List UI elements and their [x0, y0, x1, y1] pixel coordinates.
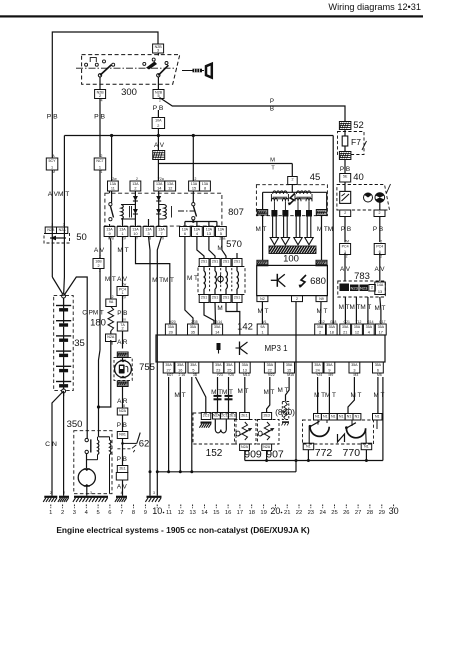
- svg-text:4: 4: [101, 99, 103, 103]
- 570 pin row top: [199, 259, 209, 267]
- svg-text:G18: G18: [330, 320, 337, 324]
- starter motor armature: [78, 469, 95, 486]
- svg-text:N9: N9: [319, 297, 324, 301]
- svg-text:19: 19: [260, 510, 266, 516]
- svg-text:8: 8: [111, 342, 113, 346]
- svg-text:1: 1: [51, 165, 53, 169]
- starter solenoid contact bar: [90, 439, 92, 452]
- relay 1 contact: [111, 191, 113, 203]
- ignition coil T1: [273, 191, 287, 194]
- sensor 909 dashed box: [235, 420, 257, 445]
- svg-text:2C1: 2C1: [221, 414, 228, 418]
- capacitor C2: [225, 395, 233, 397]
- svg-text:7: 7: [160, 232, 162, 236]
- starter 350 dashed box: [74, 431, 112, 494]
- wire: [291, 164, 293, 178]
- svg-text:35A: 35A: [165, 363, 172, 367]
- svg-text:N2: N2: [260, 297, 265, 301]
- ECU bottom pin 27: [163, 362, 174, 373]
- svg-text:52: 52: [353, 120, 364, 131]
- earth point starter: [74, 496, 108, 498]
- ECU bottom pin 15: [284, 362, 295, 373]
- ignition coil T2: [296, 191, 310, 194]
- svg-text:M TM T: M TM T: [152, 277, 174, 284]
- wire battery takeoff to starter feed: [64, 277, 88, 438]
- 783 pins: [340, 284, 350, 292]
- svg-text:P B: P B: [94, 113, 105, 120]
- wire ECU9 to gauge: [328, 377, 330, 414]
- fuse 7A: [117, 322, 128, 331]
- svg-text:2: 2: [101, 154, 103, 158]
- lightning in 680: [300, 275, 306, 287]
- svg-text:3: 3: [147, 232, 149, 236]
- svg-text:100: 100: [283, 254, 299, 265]
- wire 807-13 to injector 2: [209, 237, 215, 259]
- connector 2E1: [117, 466, 128, 473]
- gauge 770 dial: [346, 428, 365, 438]
- svg-text:N2B: N2B: [47, 228, 55, 232]
- svg-text:10A: 10A: [155, 119, 162, 123]
- header rule: [0, 15, 423, 17]
- ECU bottom pin 9: [324, 362, 335, 373]
- svg-text:A V: A V: [340, 266, 351, 273]
- svg-text:2/14: 2/14: [215, 320, 222, 324]
- svg-text:2E1: 2E1: [241, 414, 247, 418]
- ECU top pin 18: [326, 324, 337, 335]
- svg-text:PC4: PC4: [376, 245, 383, 249]
- wire distribution line y163: [158, 163, 292, 165]
- svg-text:16: 16: [178, 368, 182, 372]
- wire ECU15 to 860: [286, 377, 290, 402]
- wire relay outputs: [192, 220, 194, 222]
- svg-text:N1: N1: [355, 415, 360, 419]
- dash-dot line in switch 300: [76, 67, 177, 69]
- svg-text:24: 24: [319, 510, 326, 516]
- interconnect NC7 1: [94, 158, 106, 170]
- thermal contact: [344, 182, 346, 191]
- svg-text:2/35: 2/35: [191, 320, 198, 324]
- svg-text:14: 14: [215, 330, 219, 334]
- component 50 dashed box with arrow: [44, 234, 70, 244]
- connector 52: [339, 122, 351, 130]
- wire 807-5 to injector 3: [222, 237, 226, 259]
- svg-text:11: 11: [111, 186, 115, 190]
- svg-text:G17: G17: [379, 320, 386, 324]
- svg-text:G14: G14: [367, 320, 374, 324]
- svg-text:Engine electrical systems - 19: Engine electrical systems - 1905 cc non-…: [56, 525, 310, 535]
- connector PC4 6 fan column: [374, 244, 385, 255]
- wire ECU22 to sensor 907: [267, 377, 270, 413]
- svg-text:23: 23: [216, 368, 220, 372]
- svg-text:35A: 35A: [314, 363, 321, 367]
- svg-text:N01: N01: [119, 433, 126, 437]
- diode D2: [158, 191, 160, 226]
- svg-text:MP3 1: MP3 1: [264, 344, 288, 353]
- gauge connector row: [314, 414, 322, 421]
- svg-text:9/22: 9/22: [268, 373, 275, 377]
- svg-text:20: 20: [169, 330, 173, 334]
- interconnect stack on P B column: [153, 151, 165, 160]
- svg-text:2C3: 2C3: [203, 414, 210, 418]
- svg-text:M T: M T: [187, 275, 198, 282]
- 807 bottom pin 9: [104, 227, 115, 237]
- svg-text:35A: 35A: [378, 325, 385, 329]
- rotor arm glyph: [276, 274, 278, 287]
- svg-text:300: 300: [121, 87, 137, 98]
- svg-text:N23: N23: [360, 286, 368, 291]
- wire ECU5 to 152 screen: [196, 377, 206, 413]
- wire fan feed to ECU 17: [380, 297, 381, 324]
- svg-text:2: 2: [344, 211, 346, 215]
- svg-text:21: 21: [343, 330, 347, 334]
- ECU bottom pin 3: [349, 362, 360, 373]
- svg-text:2: 2: [380, 240, 382, 244]
- wire ECU13 to sensor 909: [244, 377, 246, 413]
- fuel pump 755 motor: [115, 361, 132, 378]
- ECU bottom pin 5: [188, 362, 199, 373]
- inertia switch 62 marks: [123, 442, 137, 444]
- 45 side pin right: [316, 210, 327, 216]
- svg-text:M T: M T: [256, 226, 267, 233]
- svg-text:3: 3: [63, 223, 65, 227]
- svg-text:T12: T12: [356, 320, 362, 324]
- battery bottom node: [62, 389, 66, 393]
- wire: [122, 241, 124, 287]
- ballast resistor 180: [108, 307, 114, 332]
- svg-text:N2A: N2A: [107, 335, 115, 339]
- 807 pin 11: [108, 181, 119, 191]
- svg-text:F7: F7: [351, 137, 361, 147]
- svg-text:P: P: [270, 98, 274, 105]
- svg-text:180: 180: [90, 318, 106, 329]
- svg-text:570: 570: [226, 239, 242, 250]
- svg-text:4: 4: [121, 491, 123, 495]
- svg-text:M6: M6: [377, 373, 382, 377]
- wire: [99, 269, 101, 351]
- svg-text:N23: N23: [351, 286, 359, 291]
- wire: [63, 391, 65, 403]
- svg-text:M9: M9: [329, 373, 334, 377]
- svg-text:13: 13: [243, 368, 247, 372]
- fuse F7: [344, 130, 346, 137]
- svg-text:152: 152: [206, 448, 223, 459]
- 772 bottom pin: [303, 443, 314, 450]
- wire ECU3 to gauge: [348, 377, 354, 414]
- svg-text:1: 1: [121, 232, 123, 236]
- svg-text:2: 2: [296, 297, 298, 301]
- connector above ignition switch: [153, 44, 164, 53]
- svg-text:5E: 5E: [343, 175, 348, 179]
- connector above fuel pump: [117, 352, 128, 358]
- svg-text:772: 772: [315, 447, 333, 459]
- svg-text:2: 2: [379, 211, 381, 215]
- wire link to main earth bus: [295, 461, 297, 472]
- wire 770 to sensor bus: [365, 450, 367, 461]
- ECU top pin 14: [212, 324, 223, 335]
- wire: [99, 99, 101, 158]
- svg-text:807: 807: [228, 207, 244, 218]
- svg-text:2: 2: [99, 94, 101, 98]
- svg-text:1: 1: [49, 510, 52, 516]
- 807 bottom pin 6: [180, 227, 191, 237]
- wire: [51, 136, 53, 158]
- svg-text:9: 9: [144, 510, 147, 516]
- switch 300 jumper: [90, 58, 96, 62]
- svg-text:50: 50: [76, 232, 87, 243]
- svg-text:2: 2: [291, 178, 293, 182]
- wire ECU16 to earth bus: [179, 377, 181, 472]
- svg-text:2: 2: [380, 255, 382, 259]
- svg-text:2: 2: [136, 177, 138, 181]
- svg-text:11: 11: [166, 510, 172, 516]
- connector below ballast: [106, 334, 117, 342]
- 152 pins: [213, 413, 221, 420]
- connector PC4 1 right column: [340, 244, 351, 255]
- svg-text:755: 755: [139, 362, 155, 373]
- wire bus drop to 807 pin 15: [192, 136, 194, 182]
- svg-text:2: 2: [112, 295, 114, 299]
- svg-text:2: 2: [50, 491, 52, 495]
- svg-text:14: 14: [201, 510, 208, 516]
- svg-text:M T: M T: [317, 308, 328, 315]
- svg-text:3B: 3B: [193, 373, 198, 377]
- svg-text:A V: A V: [94, 247, 105, 254]
- svg-text:35A: 35A: [267, 363, 274, 367]
- svg-text:5: 5: [220, 232, 222, 236]
- svg-text:1: 1: [262, 330, 264, 334]
- relay block below 62: [116, 473, 128, 481]
- wire coil unit right to module: [321, 216, 323, 261]
- svg-text:N1: N1: [364, 444, 369, 448]
- svg-text:35A: 35A: [342, 325, 349, 329]
- svg-text:2: 2: [63, 491, 65, 495]
- svg-text:35A: 35A: [177, 363, 184, 367]
- svg-text:9/20: 9/20: [169, 320, 176, 324]
- svg-text:18: 18: [248, 510, 254, 516]
- wire solenoid to motor: [97, 455, 99, 460]
- sensor 907 dashed box: [258, 420, 280, 445]
- ECU plug glyph: [217, 343, 221, 350]
- starter solenoid coils: [99, 436, 110, 438]
- svg-text:2 16: 2 16: [178, 373, 185, 377]
- svg-text:680: 680: [310, 276, 326, 287]
- battery top node: [62, 294, 66, 298]
- connector below fuel pump: [117, 381, 128, 387]
- svg-text:P B: P B: [117, 310, 127, 317]
- svg-text:35A: 35A: [375, 363, 382, 367]
- wire: [110, 241, 112, 299]
- svg-text:Y25: Y25: [228, 373, 234, 377]
- 907 thermistor: [264, 422, 269, 440]
- svg-text:3: 3: [73, 510, 76, 516]
- svg-text:35: 35: [74, 338, 85, 349]
- wire 807-6 to ECU 35: [185, 237, 193, 325]
- svg-text:N2A: N2A: [59, 228, 67, 232]
- svg-text:35A: 35A: [190, 363, 197, 367]
- svg-text:35A: 35A: [351, 363, 358, 367]
- svg-text:35A: 35A: [326, 363, 333, 367]
- svg-text:3: 3: [153, 491, 155, 495]
- 680 bottom pins: [257, 296, 268, 302]
- svg-text:9: 9: [108, 232, 110, 236]
- svg-text:9A: 9A: [260, 325, 265, 329]
- 909 top pin: [240, 413, 250, 420]
- wire: [157, 77, 159, 89]
- svg-text:2S1: 2S1: [201, 260, 207, 264]
- svg-text:M: M: [270, 158, 275, 164]
- svg-text:21: 21: [284, 510, 290, 516]
- svg-text:2w: 2w: [122, 283, 127, 287]
- injector rail 570 dashed box: [198, 267, 245, 295]
- svg-text:35A: 35A: [354, 325, 361, 329]
- ECU bottom pin 24: [312, 362, 323, 373]
- wire ECU25 capacitor branch: [228, 377, 230, 413]
- connector pair of component 50: [45, 227, 56, 234]
- svg-text:M T: M T: [238, 388, 249, 395]
- svg-text:P B: P B: [340, 166, 350, 173]
- earth point 1: [44, 496, 57, 498]
- svg-text:2S1: 2S1: [223, 296, 229, 300]
- svg-text:2: 2: [97, 264, 99, 268]
- wire 680 mid long drop: [295, 302, 297, 461]
- wire 807-3 down to earth: [149, 237, 151, 496]
- wire bus right drop: [332, 136, 334, 325]
- wire injector 4 stub: [236, 253, 238, 259]
- wire 807-1 down: [122, 237, 124, 242]
- ECU bottom pin 16: [175, 362, 186, 373]
- svg-text:5: 5: [192, 368, 194, 372]
- wire 807-7 down to bus corner: [157, 237, 161, 472]
- svg-text:25: 25: [227, 368, 231, 372]
- relay 2 coil: [164, 205, 166, 220]
- 807 pin 2: [130, 181, 141, 191]
- svg-text:6: 6: [184, 232, 186, 236]
- svg-text:35A: 35A: [168, 325, 175, 329]
- svg-text:2S1: 2S1: [234, 260, 240, 264]
- svg-text:22: 22: [296, 510, 302, 516]
- relay 2 contact: [192, 191, 194, 203]
- fuel pump 755 dashed housing: [114, 358, 132, 381]
- svg-text:N1: N1: [306, 444, 311, 448]
- svg-text:M T: M T: [117, 247, 128, 254]
- wire ECU6 to gauge: [377, 377, 379, 414]
- svg-text:2S1: 2S1: [234, 296, 240, 300]
- svg-text:40: 40: [353, 172, 364, 183]
- ECU top pin 1: [257, 324, 268, 335]
- wire: [157, 53, 159, 56]
- svg-text:M T: M T: [351, 392, 362, 399]
- svg-text:907: 907: [266, 449, 284, 461]
- wire battery negative to earth: [52, 391, 64, 496]
- connector below F7: [339, 152, 351, 160]
- svg-text:9: 9: [328, 368, 330, 372]
- 907 bottom pin: [262, 444, 272, 451]
- 807 bottom pin 3: [143, 227, 154, 237]
- wire: [63, 277, 66, 296]
- coil unit 45 dashed box: [256, 185, 327, 216]
- resistor 860 dashed: [282, 402, 289, 420]
- switch 300 lever left: [100, 65, 111, 76]
- svg-text:10: 10: [133, 232, 137, 236]
- svg-text:N1: N1: [323, 415, 328, 419]
- starter solenoid contact: [85, 438, 88, 441]
- HT leads to distributor: [271, 210, 277, 217]
- ECU bottom pin 13: [239, 362, 250, 373]
- wire 783 outputs to ECU: [344, 297, 346, 324]
- svg-text:M27: M27: [167, 373, 174, 377]
- 907 top pin: [262, 413, 272, 420]
- 807 bottom pin 7: [156, 227, 167, 237]
- 807 bottom pin 1: [117, 227, 128, 237]
- svg-text:2E3: 2E3: [263, 414, 269, 418]
- 40 bottom pins: [340, 210, 351, 217]
- svg-text:NC7: NC7: [96, 159, 103, 163]
- 45 feed pin: [288, 177, 298, 185]
- ignition switch 300 dashed housing: [82, 55, 180, 85]
- injector coils: [203, 267, 205, 272]
- wire: [122, 296, 124, 323]
- svg-text:13: 13: [378, 290, 382, 294]
- svg-text:A R: A R: [117, 339, 128, 346]
- 680 top pins: [257, 260, 268, 266]
- svg-text:35A: 35A: [328, 325, 335, 329]
- svg-text:23: 23: [308, 510, 314, 516]
- svg-text:13: 13: [189, 510, 195, 516]
- svg-text:P B: P B: [47, 113, 58, 120]
- fuse holder 10A 2: [157, 110, 159, 118]
- wire 807 internal links: [109, 191, 111, 193]
- svg-text:62: 62: [139, 439, 150, 450]
- svg-text:P B: P B: [117, 456, 127, 463]
- ignition module 680 box: [257, 265, 328, 295]
- injector separator dashes: [209, 268, 211, 293]
- svg-text:(860): (860): [275, 407, 295, 417]
- 45 side pin left: [257, 210, 268, 216]
- svg-text:8: 8: [204, 186, 206, 190]
- ECU top pin 4: [363, 324, 374, 335]
- svg-text:N1: N1: [375, 415, 380, 419]
- svg-text:M T: M T: [264, 389, 275, 396]
- coil primary bus: [291, 185, 293, 193]
- svg-text:27: 27: [166, 368, 170, 372]
- svg-text:35: 35: [191, 330, 195, 334]
- svg-text:350: 350: [67, 419, 83, 430]
- wire 680 right to ECU: [320, 302, 323, 324]
- svg-text:Y23: Y23: [217, 373, 223, 377]
- svg-text:15: 15: [192, 186, 196, 190]
- relay box 783 dashed: [338, 281, 386, 297]
- connector N01: [117, 432, 128, 439]
- svg-text:2: 2: [121, 326, 123, 330]
- wire: [99, 170, 101, 259]
- svg-text:2w: 2w: [112, 177, 117, 181]
- svg-text:M TM TM T: M TM TM T: [339, 304, 372, 311]
- svg-text:6: 6: [377, 368, 379, 372]
- wire: [99, 77, 101, 89]
- svg-text:M13: M13: [243, 373, 250, 377]
- ECU bottom pin 25: [224, 362, 235, 373]
- 909 thermistor: [242, 422, 247, 440]
- wire: [344, 253, 346, 281]
- svg-text:2S1: 2S1: [201, 296, 207, 300]
- wire 772 to sensor bus: [307, 450, 309, 461]
- svg-text:12: 12: [355, 330, 359, 334]
- svg-text:22: 22: [268, 368, 272, 372]
- wire: [52, 277, 63, 296]
- svg-text:12: 12: [168, 186, 172, 190]
- svg-text:9: 9: [162, 237, 164, 241]
- svg-text:B: B: [270, 106, 274, 113]
